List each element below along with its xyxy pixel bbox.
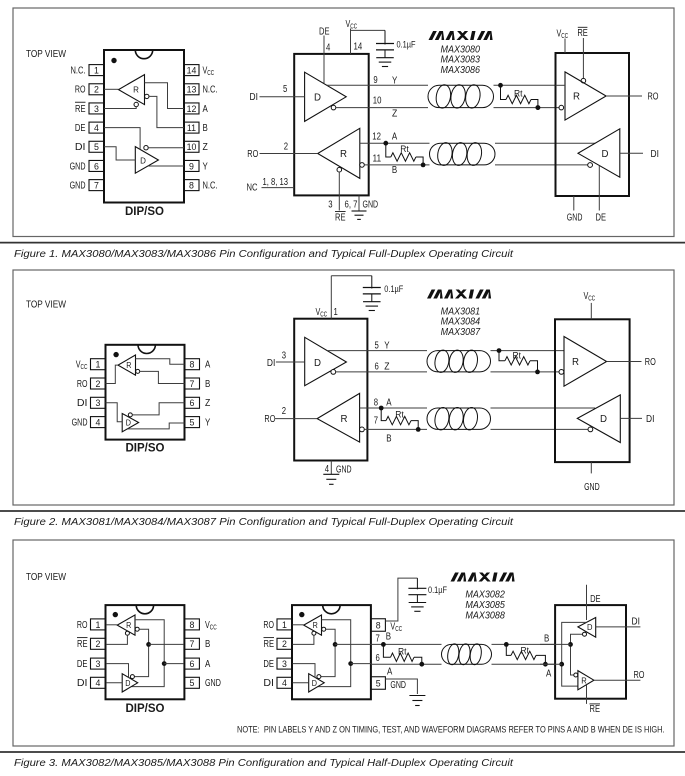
svg-text:6: 6	[375, 361, 380, 372]
svg-text:RO: RO	[263, 620, 274, 631]
svg-text:TOP VIEW: TOP VIEW	[26, 300, 66, 311]
svg-text:N.C.: N.C.	[203, 181, 218, 192]
svg-text:R: R	[126, 621, 131, 630]
svg-text:A: A	[203, 104, 209, 115]
svg-text:RO: RO	[77, 379, 88, 390]
svg-text:2: 2	[282, 639, 287, 649]
svg-text:VCC: VCC	[203, 66, 215, 78]
svg-text:2: 2	[96, 379, 101, 389]
svg-text:Figure 3. MAX3082/MAX3085/MAX: Figure 3. MAX3082/MAX3085/MAX3088 Pin Co…	[14, 758, 514, 769]
svg-text:GND: GND	[584, 482, 600, 493]
svg-text:DI: DI	[75, 142, 86, 153]
svg-text:Figure 2. MAX3081/MAX3084/MAX: Figure 2. MAX3081/MAX3084/MAX3087 Pin Co…	[14, 517, 514, 528]
svg-text:DIP/SO: DIP/SO	[126, 443, 165, 455]
svg-text:D: D	[126, 419, 131, 428]
svg-text:RE: RE	[264, 639, 275, 650]
svg-text:4: 4	[282, 678, 287, 688]
svg-text:11: 11	[373, 154, 382, 165]
svg-text:VCC: VCC	[76, 360, 88, 372]
svg-text:GND: GND	[363, 200, 379, 211]
svg-text:NC: NC	[247, 183, 258, 194]
svg-text:7: 7	[376, 633, 381, 644]
svg-text:1: 1	[334, 307, 339, 318]
svg-text:0.1µF: 0.1µF	[397, 40, 416, 51]
svg-text:1, 8, 13: 1, 8, 13	[263, 177, 289, 188]
svg-text:1: 1	[96, 360, 101, 370]
svg-text:7: 7	[190, 379, 195, 389]
svg-text:R: R	[341, 414, 348, 425]
svg-text:Z: Z	[203, 142, 208, 153]
svg-text:N.C.: N.C.	[203, 85, 218, 96]
svg-text:Z: Z	[392, 109, 397, 120]
svg-text:7: 7	[94, 181, 99, 191]
svg-text:Y: Y	[203, 161, 209, 172]
svg-text:3: 3	[96, 659, 101, 669]
svg-text:DE: DE	[596, 213, 607, 224]
svg-text:8: 8	[374, 397, 379, 408]
svg-text:DI: DI	[77, 678, 88, 689]
svg-text:RE: RE	[577, 28, 588, 39]
svg-text:DI: DI	[250, 92, 258, 103]
svg-text:5: 5	[283, 84, 288, 95]
svg-text:DI: DI	[267, 358, 275, 369]
svg-text:DE: DE	[75, 123, 86, 134]
svg-text:B: B	[392, 165, 398, 176]
svg-text:R: R	[573, 92, 580, 103]
svg-text:GND: GND	[336, 464, 352, 475]
svg-text:RE: RE	[590, 704, 601, 715]
svg-text:GND: GND	[70, 181, 86, 192]
svg-text:B: B	[205, 379, 211, 390]
svg-text:2: 2	[96, 639, 101, 649]
svg-text:12: 12	[372, 132, 381, 143]
svg-text:RO: RO	[77, 620, 88, 631]
svg-text:5: 5	[190, 418, 195, 428]
svg-text:GND: GND	[567, 213, 583, 224]
svg-text:N.C.: N.C.	[71, 66, 86, 77]
svg-text:VCC: VCC	[390, 621, 402, 633]
svg-text:Z: Z	[384, 361, 389, 372]
svg-text:RO: RO	[264, 414, 275, 425]
svg-text:GND: GND	[70, 161, 86, 172]
svg-text:6, 7: 6, 7	[345, 200, 358, 211]
svg-text:Rt: Rt	[521, 646, 530, 657]
svg-text:B: B	[386, 434, 392, 445]
svg-text:Rt: Rt	[395, 410, 404, 421]
svg-text:8: 8	[189, 181, 194, 191]
svg-text:DE: DE	[590, 594, 601, 605]
svg-text:B: B	[203, 123, 209, 134]
svg-text:R: R	[313, 621, 318, 630]
svg-text:D: D	[600, 414, 607, 425]
svg-text:0.1µF: 0.1µF	[384, 284, 403, 295]
svg-text:6: 6	[94, 161, 99, 171]
svg-text:DE: DE	[263, 659, 274, 670]
svg-text:14: 14	[187, 66, 197, 76]
svg-text:R: R	[133, 85, 139, 95]
svg-text:6: 6	[189, 659, 194, 669]
svg-text:VCC: VCC	[316, 307, 328, 319]
svg-text:D: D	[312, 679, 317, 688]
svg-text:Rt: Rt	[514, 89, 523, 100]
svg-text:RO: RO	[75, 85, 86, 96]
svg-text:1: 1	[96, 620, 101, 630]
svg-text:RE: RE	[75, 104, 86, 115]
svg-text:6: 6	[190, 398, 195, 408]
svg-text:Y: Y	[205, 418, 211, 429]
svg-text:A: A	[392, 132, 398, 143]
svg-text:Y: Y	[384, 341, 390, 352]
svg-text:5: 5	[189, 678, 194, 688]
svg-text:4: 4	[96, 678, 101, 688]
svg-text:DI: DI	[263, 678, 274, 689]
svg-text:VCC: VCC	[584, 291, 596, 303]
svg-text:6: 6	[376, 653, 381, 664]
svg-text:5: 5	[94, 142, 99, 152]
svg-text:D: D	[602, 149, 609, 160]
svg-text:Figure 1. MAX3080/MAX3083/MAX: Figure 1. MAX3080/MAX3083/MAX3086 Pin Co…	[14, 249, 514, 260]
svg-text:Z: Z	[205, 398, 210, 409]
svg-text:RE: RE	[77, 639, 88, 650]
svg-text:D: D	[314, 358, 321, 369]
svg-text:4: 4	[326, 43, 331, 54]
svg-text:B: B	[544, 633, 550, 644]
svg-text:B: B	[205, 639, 211, 650]
svg-text:GND: GND	[72, 418, 88, 429]
svg-text:DIP/SO: DIP/SO	[126, 703, 165, 715]
svg-text:0.1µF: 0.1µF	[428, 585, 447, 596]
svg-text:10: 10	[373, 96, 382, 107]
svg-text:5: 5	[375, 340, 380, 351]
svg-text:5: 5	[376, 678, 381, 688]
svg-text:MAX3086: MAX3086	[441, 65, 481, 76]
svg-text:R: R	[340, 149, 347, 160]
svg-text:DI: DI	[646, 414, 654, 425]
svg-text:MAX3082: MAX3082	[465, 590, 505, 601]
svg-text:TOP VIEW: TOP VIEW	[26, 572, 66, 583]
svg-text:MAX3088: MAX3088	[465, 610, 505, 621]
svg-text:R: R	[581, 676, 587, 686]
svg-text:MAX3087: MAX3087	[441, 327, 481, 338]
svg-text:2: 2	[284, 142, 289, 153]
svg-text:1: 1	[282, 620, 287, 630]
svg-text:3: 3	[94, 104, 99, 114]
svg-text:D: D	[314, 93, 321, 104]
svg-text:A: A	[205, 360, 211, 371]
svg-text:VCC: VCC	[346, 19, 358, 31]
svg-text:DIP/SO: DIP/SO	[125, 206, 164, 218]
svg-text:10: 10	[187, 142, 197, 152]
svg-text:9: 9	[189, 161, 194, 171]
svg-text:RO: RO	[648, 91, 659, 102]
svg-text:Rt: Rt	[398, 646, 407, 657]
svg-text:D: D	[587, 622, 593, 632]
svg-text:3: 3	[282, 350, 287, 361]
svg-text:VCC: VCC	[557, 29, 569, 41]
svg-text:TOP VIEW: TOP VIEW	[26, 49, 66, 60]
svg-text:MAX3085: MAX3085	[465, 600, 505, 611]
svg-text:7: 7	[374, 415, 379, 426]
svg-text:12: 12	[187, 104, 197, 114]
svg-text:A: A	[386, 398, 392, 409]
svg-text:3: 3	[96, 398, 101, 408]
svg-text:R: R	[572, 357, 579, 368]
svg-text:8: 8	[189, 620, 194, 630]
svg-text:D: D	[140, 155, 146, 165]
svg-text:9: 9	[373, 75, 378, 86]
svg-text:RE: RE	[335, 213, 346, 224]
svg-text:B: B	[386, 632, 392, 643]
svg-text:8: 8	[376, 620, 381, 630]
svg-text:A: A	[546, 669, 552, 680]
svg-text:GND: GND	[390, 680, 406, 691]
svg-text:RO: RO	[645, 357, 656, 368]
svg-text:3: 3	[328, 200, 333, 211]
svg-text:1: 1	[94, 66, 99, 76]
svg-text:A: A	[387, 667, 393, 678]
svg-text:RO: RO	[247, 149, 258, 160]
svg-text:DI: DI	[651, 149, 659, 160]
svg-text:VCC: VCC	[205, 620, 217, 632]
svg-text:Rt: Rt	[400, 144, 409, 155]
svg-text:2: 2	[94, 85, 99, 95]
svg-text:R: R	[126, 361, 131, 370]
svg-text:A: A	[205, 659, 211, 670]
svg-text:14: 14	[354, 42, 363, 53]
svg-text:13: 13	[187, 85, 197, 95]
svg-text:4: 4	[94, 123, 99, 133]
svg-text:7: 7	[189, 639, 194, 649]
svg-text:DI: DI	[632, 616, 640, 627]
svg-text:4: 4	[96, 418, 101, 428]
svg-text:DI: DI	[77, 398, 88, 409]
svg-text:8: 8	[190, 360, 195, 370]
svg-text:D: D	[125, 679, 130, 688]
svg-text:RO: RO	[634, 670, 645, 681]
svg-text:NOTE: PIN LABELS Y AND Z ON T: NOTE: PIN LABELS Y AND Z ON TIMING, TEST…	[237, 724, 665, 734]
svg-text:3: 3	[282, 659, 287, 669]
svg-text:Rt: Rt	[513, 351, 522, 362]
svg-text:GND: GND	[205, 678, 221, 689]
svg-text:DE: DE	[77, 659, 88, 670]
svg-text:2: 2	[282, 406, 287, 417]
svg-text:Y: Y	[392, 76, 398, 87]
svg-text:11: 11	[187, 123, 196, 133]
svg-text:4: 4	[325, 464, 330, 475]
